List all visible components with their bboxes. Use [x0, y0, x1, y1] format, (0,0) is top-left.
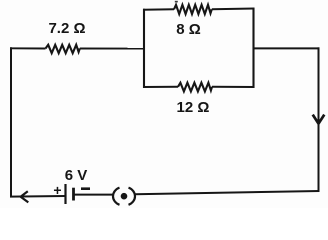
- plug key dot: [121, 193, 128, 200]
- wire battery to bottom-left corner: [10, 195, 66, 198]
- wire right vertical: [318, 47, 320, 192]
- wire R1 to parallel box: [80, 48, 145, 50]
- wire box bottom-right segment: [212, 86, 255, 88]
- wire top-left horizontal: [10, 47, 46, 49]
- wire bottom right segment (corner to plug key): [135, 191, 320, 194]
- wire box top-right segment: [212, 8, 255, 11]
- svg-text:7.2 Ω: 7.2 Ω: [48, 20, 85, 37]
- wire plug key to battery: [74, 194, 114, 196]
- current arrow down on right wire: [313, 115, 325, 124]
- wire left vertical: [10, 47, 12, 196]
- resistor R1 7.2 ohm: [46, 45, 80, 53]
- svg-text:8 Ω: 8 Ω: [176, 21, 201, 38]
- current arrow left on bottom wire: [21, 191, 29, 202]
- svg-text:12 Ω: 12 Ω: [177, 99, 210, 116]
- wire parallel box left edge: [143, 9, 145, 88]
- wire box to right corner: [254, 47, 320, 49]
- wire box top-left segment: [143, 8, 174, 10]
- svg-text:6 V: 6 V: [65, 167, 88, 184]
- speck above R2: [175, 1, 178, 3]
- battery negative plate (short): [72, 188, 75, 201]
- resistor R3 12 ohm: [178, 83, 212, 92]
- wire parallel box right edge: [252, 8, 254, 88]
- battery positive plate (long): [64, 184, 66, 204]
- battery minus sign: [81, 187, 90, 190]
- plug key circle: [113, 188, 135, 205]
- wire box bottom-left segment: [143, 86, 178, 88]
- resistor R2 8 ohm: [174, 5, 212, 14]
